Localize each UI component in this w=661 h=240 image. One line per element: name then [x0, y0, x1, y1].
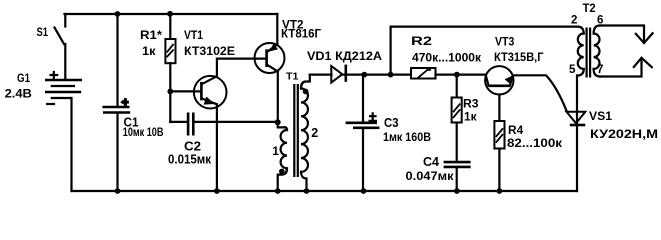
node T1 w2 bottom: [304, 188, 310, 194]
svg-text:Т2: Т2: [583, 3, 596, 15]
svg-text:R3: R3: [463, 97, 479, 111]
switch S1: [55, 28, 65, 45]
wire rail to R1: [169, 14, 171, 39]
wire VD1 to R2: [341, 73, 411, 75]
transformer T2 secondary: [594, 34, 600, 70]
wire junction to C2: [195, 121, 278, 123]
node VT2 collector junction: [275, 119, 281, 125]
svg-text:КТ816Г: КТ816Г: [281, 28, 321, 40]
svg-text:2: 2: [311, 126, 318, 140]
transformer T1 winding 1: [278, 122, 285, 127]
svg-text:VT1: VT1: [184, 28, 203, 42]
capacitor C2: [187, 113, 190, 136]
wire R4 to ground: [498, 149, 500, 192]
svg-text:7: 7: [597, 64, 603, 76]
node VT1 emitter ground: [214, 188, 220, 194]
wire top-left corner down to switch: [64, 14, 66, 27]
wire VT2 collector down: [277, 72, 279, 123]
resistor R4: [494, 121, 504, 149]
svg-text:R2: R2: [411, 34, 432, 48]
wire VT3 emitter to VS1 gate: [513, 75, 567, 111]
svg-text:0.015мк: 0.015мк: [168, 152, 212, 166]
transistor VT1: [194, 76, 227, 109]
svg-text:0.047мк: 0.047мк: [406, 169, 455, 183]
resistor R3: [456, 75, 458, 98]
svg-text:КТ315В,Г: КТ315В,Г: [494, 50, 544, 64]
svg-text:1мк 160В: 1мк 160В: [383, 130, 431, 144]
wire R2 to VT3: [436, 73, 487, 75]
svg-text:G1: G1: [17, 71, 30, 85]
svg-text:VD1 КД212А: VD1 КД212А: [307, 51, 382, 63]
svg-text:1к: 1к: [142, 44, 157, 58]
wire VT2 emitter to top rail: [276, 14, 278, 44]
svg-text:470к...1000к: 470к...1000к: [412, 51, 482, 65]
wire R3 to C4: [456, 123, 458, 162]
wire C1 column: [116, 14, 118, 191]
node R4 bottom: [497, 188, 503, 194]
svg-text:C3: C3: [384, 116, 399, 130]
node C3 bottom: [361, 188, 367, 194]
svg-text:1: 1: [272, 144, 279, 158]
svg-text:2: 2: [571, 14, 577, 26]
T2 core: [587, 28, 591, 78]
svg-text:5: 5: [569, 64, 576, 76]
battery G1: [45, 79, 82, 82]
svg-text:10мк 10В: 10мк 10В: [123, 125, 164, 139]
svg-text:КТ3102Е: КТ3102Е: [184, 44, 235, 58]
wire VT3 base down to R4: [498, 95, 500, 122]
transistor VT2: [255, 43, 285, 73]
node R1 top: [167, 11, 173, 17]
svg-text:VT3: VT3: [495, 37, 514, 49]
svg-text:S1: S1: [37, 25, 49, 39]
resistor R1: [165, 39, 175, 63]
output terminal top: [600, 26, 644, 43]
svg-text:R4: R4: [508, 123, 524, 137]
capacitor C4: [444, 161, 471, 164]
svg-text:1к: 1к: [464, 110, 477, 124]
svg-text:82...100к: 82...100к: [507, 138, 562, 150]
wire R1 to base node: [169, 63, 171, 122]
wire battery minus down: [70, 98, 72, 191]
node base VT1: [167, 89, 173, 95]
node C4 bottom: [454, 188, 460, 194]
node C1 bottom: [115, 188, 121, 194]
diode VD1: [331, 66, 342, 83]
svg-text:VS1: VS1: [589, 109, 612, 123]
phase dot winding 2: [303, 89, 309, 95]
wire VT1 emitter to ground: [216, 104, 218, 191]
capacitor C1: [102, 106, 129, 109]
node R2 branch: [388, 72, 394, 78]
resistor R2: [411, 68, 436, 79]
svg-text:КУ202Н,М: КУ202Н,М: [590, 127, 658, 141]
svg-text:C4: C4: [423, 155, 439, 169]
wire VT1 collector up and to VT2 base: [217, 59, 266, 77]
node C3 top: [361, 72, 367, 78]
output terminal bottom: [600, 59, 642, 77]
svg-text:Т1: Т1: [286, 71, 299, 83]
svg-text:R1*: R1*: [140, 28, 162, 42]
thyristor VS1: [576, 76, 578, 192]
phase dot winding 1: [279, 169, 285, 175]
bottom rail: [72, 190, 578, 192]
wire base VT1: [170, 90, 200, 92]
node T1 w1 bottom: [275, 188, 281, 194]
wire R2 branch up and upper rail: [391, 27, 578, 75]
svg-text:C2: C2: [184, 139, 201, 153]
node R3 top: [454, 72, 460, 78]
transformer T1 winding 2: [301, 89, 308, 172]
transformer T2 primary: [578, 27, 584, 34]
svg-text:2.4В: 2.4В: [5, 86, 33, 100]
transistor VT3: [485, 66, 513, 94]
T1 core: [294, 84, 298, 177]
wire T1 to VD1: [310, 73, 332, 75]
capacitor C3: [362, 75, 364, 191]
node C1 top: [115, 11, 121, 17]
wire switch to battery: [64, 44, 66, 80]
top rail: [65, 13, 278, 15]
